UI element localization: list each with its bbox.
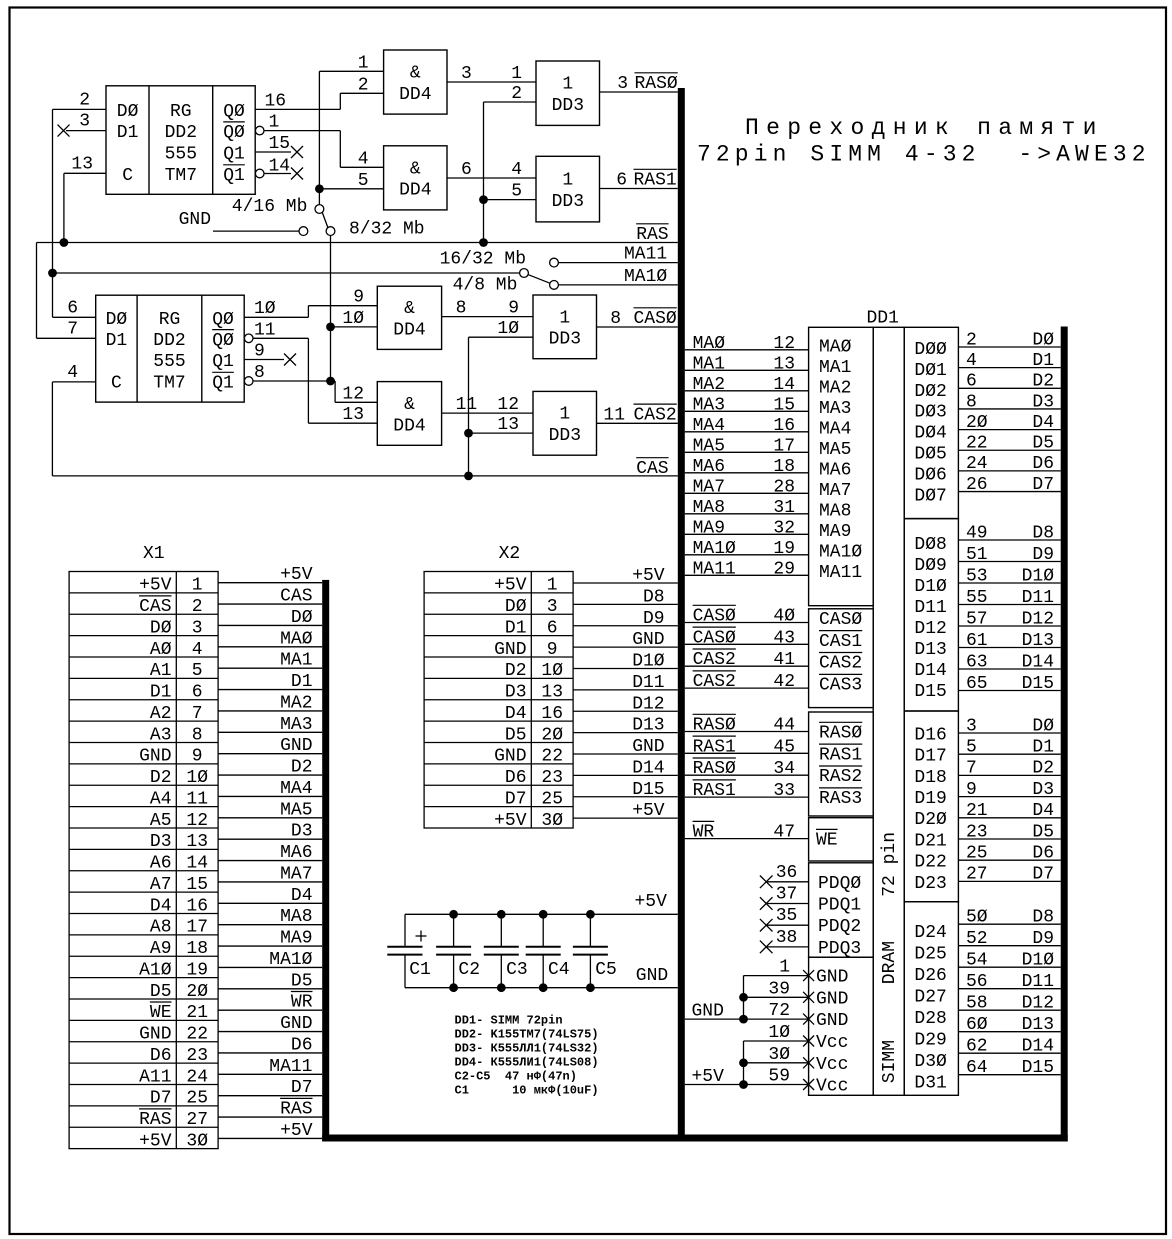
wire X1 pin 19 to bus MA10 — [218, 966, 322, 968]
svg-text:D12: D12 — [632, 694, 664, 714]
wire DD1 PDQ3 pin 38 NC — [766, 946, 808, 948]
wire select to reg2 D0 pin6 — [53, 316, 96, 318]
wire +5V bus to DD1 Vcc — [685, 1084, 809, 1086]
svg-text:C3: C3 — [506, 960, 528, 980]
svg-text:MA6: MA6 — [693, 457, 725, 477]
IC DD1 pin-name box GND-Vcc — [809, 957, 874, 1095]
node junction DD4.3 pin10 net — [326, 323, 335, 332]
wire X1 pin 16 to bus D4 — [218, 902, 322, 904]
svg-text:2Ø: 2Ø — [541, 725, 563, 745]
svg-text:DØ5: DØ5 — [914, 445, 946, 465]
svg-text:2: 2 — [966, 330, 977, 350]
svg-text:MA1: MA1 — [693, 354, 725, 374]
svg-text:D13: D13 — [632, 716, 664, 736]
wire DD1 D13 pin 61 to D13 — [958, 647, 1060, 649]
svg-text:MA6: MA6 — [819, 460, 851, 480]
svg-text:MA2: MA2 — [693, 375, 725, 395]
svg-text:MA7: MA7 — [693, 477, 725, 497]
wire X1 pin 8 to bus MA3 — [218, 731, 322, 733]
svg-text:6: 6 — [192, 683, 203, 703]
svg-text:D4: D4 — [505, 704, 527, 724]
wire X1 pin 9 to bus GND — [218, 753, 322, 755]
bus bar X1 vertical — [322, 580, 329, 1142]
svg-text:4: 4 — [358, 149, 369, 169]
svg-text:D1Ø: D1Ø — [1022, 566, 1055, 586]
svg-text:D8: D8 — [1032, 908, 1054, 928]
svg-text:D14: D14 — [1022, 1037, 1054, 1057]
svg-text:15: 15 — [773, 395, 795, 415]
wire X2 pin 6 to bus D9 — [573, 625, 678, 627]
svg-text:35: 35 — [776, 906, 798, 926]
svg-text:D19: D19 — [914, 789, 946, 809]
svg-text:3: 3 — [192, 618, 203, 638]
svg-text:16: 16 — [773, 416, 795, 436]
svg-text:D17: D17 — [914, 747, 946, 767]
svg-text:8: 8 — [610, 309, 621, 329]
svg-text:17: 17 — [773, 436, 795, 456]
svg-text:RASØ: RASØ — [635, 74, 678, 94]
svg-text:DD4: DD4 — [399, 85, 431, 105]
wire X2 pin 10 to bus D10 — [573, 668, 678, 670]
svg-text:4: 4 — [511, 160, 522, 180]
capacitor C3 — [500, 914, 502, 947]
svg-text:62: 62 — [966, 1037, 988, 1057]
svg-text:D4: D4 — [291, 886, 313, 906]
svg-text:D1Ø: D1Ø — [914, 577, 947, 597]
svg-text:D23: D23 — [914, 874, 946, 894]
svg-text:16/32 Mb: 16/32 Mb — [440, 250, 526, 270]
wire DD4.3 pin10 — [331, 326, 378, 328]
svg-text:9: 9 — [508, 299, 519, 319]
svg-text:D2: D2 — [1032, 759, 1054, 779]
wire X2 pin 30 to bus +5V — [573, 817, 678, 819]
wire DD1 D23 pin 27 to D7 — [958, 880, 1060, 882]
svg-text:45: 45 — [773, 737, 795, 757]
svg-text:RAS1: RAS1 — [819, 745, 862, 765]
svg-text:555: 555 — [153, 352, 185, 372]
svg-text:53: 53 — [966, 566, 988, 586]
svg-text:D5: D5 — [505, 725, 527, 745]
svg-text:7: 7 — [67, 319, 78, 339]
node junction GND pin72 — [739, 1015, 748, 1024]
svg-text:23: 23 — [186, 1046, 208, 1066]
svg-text:+5V: +5V — [139, 1131, 172, 1151]
svg-text:DD4- К555ЛИ1(74LS08): DD4- К555ЛИ1(74LS08) — [455, 1055, 599, 1069]
svg-text:C: C — [122, 166, 133, 186]
wire DD1 MA1 pin 13 — [685, 369, 809, 371]
svg-text:RASØ: RASØ — [693, 716, 736, 736]
svg-text:12: 12 — [773, 334, 795, 354]
svg-text:D15: D15 — [914, 682, 946, 702]
svg-text:43: 43 — [773, 628, 795, 648]
svg-text:7: 7 — [192, 704, 203, 724]
svg-text:6: 6 — [461, 160, 472, 180]
svg-text:44: 44 — [773, 716, 795, 736]
node junction MA-select line — [48, 269, 57, 278]
node junction DD3.2 pin5 net — [479, 195, 488, 204]
svg-text:4: 4 — [67, 363, 78, 383]
svg-text:CAS3: CAS3 — [819, 676, 862, 696]
svg-text:38: 38 — [776, 928, 798, 948]
svg-text:A7: A7 — [150, 875, 172, 895]
IC DD1 pin-name box RAS — [809, 712, 874, 816]
wire DD3.2 pin5 from RAS net — [484, 199, 537, 201]
wire DD1 MA7 pin 28 — [685, 492, 809, 494]
wire DD1 RAS0 pin 34 — [685, 774, 809, 776]
svg-text:D5: D5 — [1032, 434, 1054, 454]
svg-text:D1: D1 — [150, 683, 172, 703]
svg-text:GND: GND — [692, 1001, 724, 1021]
wire X2 pin 20 to bus D13 — [573, 732, 678, 734]
svg-text:D7: D7 — [150, 1089, 172, 1109]
svg-text:GND: GND — [816, 989, 848, 1009]
svg-text:D3: D3 — [291, 822, 313, 842]
svg-text:DD3: DD3 — [552, 96, 584, 116]
svg-text:Vcc: Vcc — [816, 1077, 848, 1097]
svg-text:58: 58 — [966, 994, 988, 1014]
switch SA1 8/32 contact — [326, 227, 335, 236]
svg-text:14: 14 — [186, 854, 208, 874]
OR gate DD3.4 body — [533, 391, 597, 455]
svg-text:49: 49 — [966, 523, 988, 543]
svg-text:GND: GND — [816, 1011, 848, 1031]
svg-text:4Ø: 4Ø — [773, 607, 795, 627]
wire reg1 C pin13 from RAS net — [64, 172, 106, 174]
svg-text:61: 61 — [966, 631, 988, 651]
svg-text:D4: D4 — [1032, 801, 1054, 821]
svg-text:D3: D3 — [1032, 780, 1054, 800]
svg-text:4/16 Mb: 4/16 Mb — [232, 197, 308, 217]
svg-text:C1 10 мкФ(10uF): C1 10 мкФ(10uF) — [455, 1083, 599, 1097]
svg-text:DØ7: DØ7 — [914, 486, 946, 506]
svg-text:8: 8 — [966, 392, 977, 412]
IC DD1 data box D24-D31 — [904, 902, 958, 1096]
svg-text:D11: D11 — [632, 673, 664, 693]
svg-text:GND: GND — [494, 747, 526, 767]
svg-text:D7: D7 — [291, 1078, 313, 1098]
svg-text:D8: D8 — [643, 587, 665, 607]
IC DD1 data box D00-D07 — [904, 327, 958, 518]
wire reg2 C pin4 from CAS net — [52, 381, 95, 383]
wire DD1 MA4 pin 16 — [685, 431, 809, 433]
svg-text:MA5: MA5 — [280, 800, 312, 820]
svg-text:Vcc: Vcc — [816, 1055, 848, 1075]
svg-text:2: 2 — [79, 90, 90, 110]
bus bar right vertical — [1061, 327, 1068, 1142]
IC DD1 pin-name box MA — [809, 327, 874, 605]
svg-text:A9: A9 — [150, 939, 172, 959]
wire X1 pin 2 to bus CAS — [218, 603, 322, 605]
wire DD1 D18 pin 7 to D2 — [958, 774, 1060, 776]
wire X2 pin 22 to bus GND — [573, 753, 678, 755]
wire reg1 Q0 pin16 to DD4.1 pin2 — [255, 108, 340, 110]
svg-text:13: 13 — [541, 683, 563, 703]
wire DD1 D24 pin 50 to D8 — [958, 923, 1060, 925]
node junction RAS line — [479, 238, 488, 247]
svg-text:WE: WE — [816, 831, 838, 851]
svg-text:DØ: DØ — [106, 310, 128, 330]
svg-text:MA9: MA9 — [693, 518, 725, 538]
svg-text:MA3: MA3 — [693, 395, 725, 415]
inversion bubble reg2 /Q0 pin11 — [244, 334, 253, 343]
wire X1 pin 6 to bus D1 — [218, 689, 322, 691]
svg-text:16: 16 — [186, 896, 208, 916]
svg-text:A3: A3 — [150, 725, 172, 745]
svg-text:42: 42 — [773, 672, 795, 692]
svg-text:RAS1: RAS1 — [693, 737, 736, 757]
svg-text:MAØ: MAØ — [280, 629, 313, 649]
svg-text:12: 12 — [342, 384, 364, 404]
svg-text:DD4: DD4 — [393, 416, 425, 436]
svg-text:D3: D3 — [1032, 392, 1054, 412]
svg-text:D6: D6 — [291, 1035, 313, 1055]
svg-text:D27: D27 — [914, 988, 946, 1008]
wire DD4.3 output pin8 to DD3.3 pin9 — [442, 316, 533, 318]
wire reg2 Q1 pin9 NC — [244, 359, 284, 361]
wire X1 pin 24 to bus MA11 — [218, 1073, 322, 1075]
svg-text:28: 28 — [773, 477, 795, 497]
svg-text:72 pin: 72 pin — [880, 832, 900, 897]
svg-text:1: 1 — [547, 576, 558, 596]
svg-text:C4: C4 — [548, 960, 570, 980]
svg-text:MA1Ø: MA1Ø — [819, 542, 862, 562]
svg-text:DD3: DD3 — [552, 192, 584, 212]
svg-text:&: & — [410, 159, 421, 179]
svg-text:D15: D15 — [1022, 674, 1054, 694]
svg-text:12: 12 — [497, 395, 519, 415]
capacitor C4 — [542, 914, 544, 947]
svg-text:DD2- K155TM7(74LS75): DD2- K155TM7(74LS75) — [455, 1027, 599, 1041]
svg-text:8/32 Mb: 8/32 Mb — [349, 220, 425, 240]
svg-text:RG: RG — [159, 310, 181, 330]
svg-text:GND: GND — [632, 630, 664, 650]
wire RAS to reg2 D1 pin7 — [36, 243, 38, 339]
wire reg1 /Q1 pin14 NC — [264, 173, 291, 175]
inversion bubble reg1 /Q0 pin1 — [255, 126, 264, 135]
svg-text:DØ2: DØ2 — [914, 382, 946, 402]
svg-text:22: 22 — [541, 747, 563, 767]
capacitor C1 (polarized) — [404, 914, 406, 947]
svg-text:&: & — [410, 64, 421, 84]
wire DD1 MA8 pin 31 — [685, 513, 809, 515]
wire DD1 CAS2 pin 41 — [685, 665, 809, 667]
svg-text:23: 23 — [541, 768, 563, 788]
node junction Vcc pin30 — [739, 1058, 748, 1067]
svg-text:QØ: QØ — [223, 102, 245, 122]
svg-text:4: 4 — [966, 351, 977, 371]
wire X2 pin 1 to bus +5V — [573, 582, 678, 584]
svg-text:D2: D2 — [1032, 372, 1054, 392]
svg-text:6: 6 — [616, 171, 627, 191]
svg-text:2: 2 — [192, 597, 203, 617]
svg-text:RAS: RAS — [280, 1100, 312, 1120]
AND gate DD4.2 body — [384, 146, 447, 210]
svg-text:DØ: DØ — [150, 618, 172, 638]
IC DD1 pin-name box CAS — [809, 609, 874, 708]
svg-text:D22: D22 — [914, 853, 946, 873]
svg-text:27: 27 — [966, 865, 988, 885]
wire reg2 /Q0 pin11 to DD4.4 pin13 — [253, 337, 308, 339]
svg-text:D5: D5 — [1032, 822, 1054, 842]
svg-text:25: 25 — [541, 789, 563, 809]
svg-text:D2: D2 — [505, 661, 527, 681]
svg-text:6: 6 — [547, 618, 558, 638]
svg-text:D28: D28 — [914, 1009, 946, 1029]
wire DD1 MA10 pin 19 — [685, 554, 809, 556]
wire MA10 to bus — [558, 284, 677, 286]
wire GND pins 1,39 link — [744, 975, 809, 977]
wire DD1 D04 pin 20 to D4 — [958, 429, 1060, 431]
svg-text:D9: D9 — [643, 609, 665, 629]
svg-text:D15: D15 — [1022, 1058, 1054, 1078]
svg-text:65: 65 — [966, 674, 988, 694]
svg-text:DD3: DD3 — [549, 330, 581, 350]
svg-text:2Ø: 2Ø — [186, 982, 208, 1002]
bus bar bottom horizontal — [322, 1135, 1067, 1142]
svg-text:3Ø: 3Ø — [768, 1045, 790, 1065]
svg-text:DD4: DD4 — [399, 181, 431, 201]
OR gate DD3.1 body — [536, 61, 600, 125]
svg-text:D9: D9 — [1032, 545, 1054, 565]
svg-text:C5: C5 — [595, 960, 617, 980]
svg-text:15: 15 — [269, 134, 291, 154]
svg-text:D21: D21 — [914, 831, 946, 851]
svg-text:33: 33 — [773, 781, 795, 801]
svg-text:1Ø: 1Ø — [186, 768, 208, 788]
svg-text:16: 16 — [265, 91, 287, 111]
wire reg1 D0 pin2 from MA-select net — [53, 108, 107, 110]
svg-text:1Ø: 1Ø — [541, 661, 563, 681]
wire RAS net horizontal — [37, 242, 678, 244]
svg-text:MA11: MA11 — [624, 245, 667, 265]
svg-text:MA8: MA8 — [693, 498, 725, 518]
svg-text:D15: D15 — [632, 780, 664, 800]
wire reg2 Q0 pin10 to DD4.3 pin9 — [244, 316, 308, 318]
svg-text:GND: GND — [494, 640, 526, 660]
svg-text:GND: GND — [816, 968, 848, 988]
wire DD1 D10 pin 53 to D10 — [958, 582, 1060, 584]
svg-text:1Ø: 1Ø — [497, 319, 519, 339]
inversion bubble reg1 /Q1 pin14 — [255, 169, 264, 178]
wire DD1 D06 pin 24 to D6 — [958, 470, 1060, 472]
svg-text:CASØ: CASØ — [693, 607, 736, 627]
svg-text:55: 55 — [966, 588, 988, 608]
wire DD1 CAS0 pin 40 — [685, 622, 809, 624]
svg-text:D24: D24 — [914, 923, 946, 943]
svg-text:18: 18 — [773, 457, 795, 477]
svg-text:DØ: DØ — [505, 597, 527, 617]
svg-text:D13: D13 — [914, 640, 946, 660]
svg-text:D3: D3 — [150, 832, 172, 852]
svg-text:3Ø: 3Ø — [541, 811, 563, 831]
svg-text:X2: X2 — [499, 544, 521, 564]
svg-text:WR: WR — [693, 823, 715, 843]
svg-text:A6: A6 — [150, 854, 172, 874]
connector X1 table frame — [69, 572, 218, 1149]
wire DD1 D09 pin 51 to D9 — [958, 561, 1060, 563]
svg-text:25: 25 — [186, 1089, 208, 1109]
svg-text:D7: D7 — [505, 789, 527, 809]
svg-text:Q1: Q1 — [212, 352, 234, 372]
svg-text:CAS2: CAS2 — [693, 650, 736, 670]
svg-text:PDQ3: PDQ3 — [818, 939, 861, 959]
wire X2 pin 23 to bus D14 — [573, 774, 678, 776]
svg-text:27: 27 — [186, 1110, 208, 1130]
svg-text:Q1: Q1 — [212, 374, 234, 394]
wire DD4.2 output pin6 to DD3.2 pin4 — [447, 177, 536, 179]
node junction RAS line at reg1 C — [60, 238, 69, 247]
wire DD3.3 pin10 from CAS net — [469, 336, 534, 338]
svg-text:D11: D11 — [1022, 588, 1054, 608]
svg-text:8: 8 — [456, 299, 467, 319]
wire DD3.1 pin2 from RAS net — [484, 101, 537, 103]
svg-text:CAS: CAS — [636, 459, 668, 479]
wire GND stub to switch — [213, 230, 299, 232]
switch SA1 GND contact — [299, 227, 308, 236]
svg-text:GND: GND — [139, 1025, 171, 1045]
wire X1 pin 1 to bus +5V — [218, 582, 322, 584]
svg-text:QØ: QØ — [223, 123, 245, 143]
svg-text:MA11: MA11 — [269, 1057, 312, 1077]
svg-text:C1: C1 — [409, 960, 431, 980]
svg-text:PDQØ: PDQØ — [818, 874, 861, 894]
GND rail for capacitors — [405, 987, 678, 989]
svg-text:RG: RG — [170, 102, 192, 122]
wire DD1 D30 pin 62 to D14 — [958, 1052, 1060, 1054]
svg-text:+5V: +5V — [494, 811, 527, 831]
svg-text:GND: GND — [636, 966, 668, 986]
wire DD4.4 output pin11 to DD3.4 pin12 — [442, 412, 533, 414]
svg-text:MA11: MA11 — [819, 563, 862, 583]
wire DD1 MA0 pin 12 — [685, 349, 809, 351]
svg-text:11: 11 — [603, 405, 625, 425]
svg-text:GND: GND — [632, 737, 664, 757]
wire DD1 CAS0 pin 43 — [685, 643, 809, 645]
wire DD1 D31 pin 64 to D15 — [958, 1074, 1060, 1076]
svg-text:Vcc: Vcc — [816, 1033, 848, 1053]
bus bar left vertical — [678, 88, 685, 1142]
svg-text:MAØ: MAØ — [693, 334, 726, 354]
svg-text:59: 59 — [768, 1067, 790, 1087]
svg-text:D12: D12 — [914, 619, 946, 639]
svg-text:MA4: MA4 — [819, 419, 851, 439]
svg-text:1: 1 — [511, 64, 522, 84]
svg-text:&: & — [404, 395, 415, 415]
OR gate DD3.3 body — [533, 295, 597, 359]
svg-text:6: 6 — [67, 299, 78, 319]
svg-text:4: 4 — [192, 640, 203, 660]
wire DD3.4 output CAS2 to bus — [597, 422, 678, 424]
svg-text:9: 9 — [353, 288, 364, 308]
node junction Vcc pin59 — [739, 1080, 748, 1089]
wire DD4.1 output pin3 to DD3.1 pin1 — [447, 81, 536, 83]
svg-text:D4: D4 — [1032, 413, 1054, 433]
svg-text:CAS1: CAS1 — [819, 632, 862, 652]
svg-text:MA1Ø: MA1Ø — [269, 950, 312, 970]
svg-text:D2: D2 — [291, 758, 313, 778]
svg-text:D5: D5 — [291, 971, 313, 991]
svg-text:32: 32 — [773, 518, 795, 538]
svg-text:14: 14 — [269, 156, 291, 176]
svg-text:31: 31 — [773, 498, 795, 518]
wire DD1 PDQ1 pin 37 NC — [766, 903, 808, 905]
wire X1 pin 3 to bus D0 — [218, 624, 322, 626]
wire X2 pin 3 to bus D8 — [573, 603, 678, 605]
svg-text:D12: D12 — [1022, 609, 1054, 629]
svg-text:3: 3 — [461, 64, 472, 84]
svg-text:9: 9 — [254, 342, 265, 362]
wire X1 pin 21 to bus WR — [218, 1009, 322, 1011]
